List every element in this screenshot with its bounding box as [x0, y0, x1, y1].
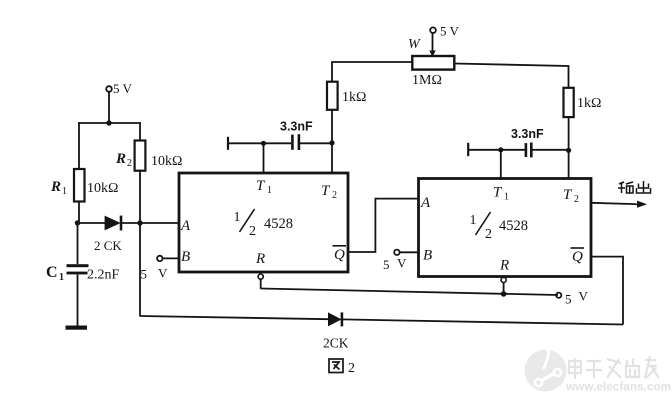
- svg-text:2: 2: [249, 224, 256, 239]
- node T2 cap junction: [329, 140, 334, 145]
- svg-text:5: 5: [141, 267, 148, 282]
- svg-text:1kΩ: 1kΩ: [342, 90, 366, 105]
- wire to diode anode: [78, 222, 106, 224]
- svg-text:B: B: [181, 249, 190, 265]
- svg-text:Q: Q: [572, 249, 583, 265]
- wire right 1k down to T2 of U2: [568, 117, 570, 179]
- svg-text:2.2nF: 2.2nF: [87, 268, 120, 283]
- node diode/R2/feedback junction: [137, 220, 142, 225]
- wire T2/1k drop of U1: [331, 110, 333, 174]
- wire 1k left top to pot: [332, 62, 412, 82]
- svg-text:www.elecfans.com: www.elecfans.com: [565, 380, 671, 394]
- power 5V supply top: [430, 24, 459, 39]
- input B1 5V terminal: [141, 256, 181, 282]
- svg-text:5: 5: [383, 257, 390, 272]
- node T1 cap junction (U2): [498, 147, 503, 152]
- svg-text:R: R: [255, 251, 265, 267]
- svg-text:C: C: [46, 264, 58, 281]
- svg-text:1: 1: [62, 186, 67, 197]
- wire T1 of U2: [500, 150, 502, 180]
- reset bubble U1: [258, 274, 263, 279]
- svg-text:1kΩ: 1kΩ: [577, 96, 601, 111]
- svg-text:R: R: [115, 151, 126, 167]
- svg-text:2: 2: [348, 361, 355, 376]
- svg-text:2: 2: [574, 194, 579, 205]
- svg-text:5 V: 5 V: [113, 81, 133, 96]
- diode D1 2CK: [94, 216, 122, 253]
- svg-text:R: R: [499, 258, 509, 274]
- svg-text:W: W: [408, 37, 421, 52]
- node T1 cap junction: [261, 141, 266, 146]
- svg-text:Q: Q: [334, 247, 345, 263]
- resistor R1 10k: [50, 169, 118, 202]
- svg-text:B: B: [423, 248, 432, 264]
- resistor 1k (left): [327, 82, 366, 110]
- resistor R2 10k: [115, 141, 182, 171]
- svg-text:1: 1: [234, 210, 241, 225]
- wire reset U1 drop: [260, 279, 262, 289]
- svg-text:2: 2: [127, 158, 132, 169]
- svg-text:2: 2: [332, 190, 337, 201]
- label 输出 (output): [618, 181, 651, 193]
- node R1/C1 junction: [75, 220, 80, 225]
- wire feedback left drop (from diode junction): [139, 223, 141, 317]
- svg-text:2CK: 2CK: [323, 336, 349, 351]
- power 5V supply top-left: [106, 81, 132, 96]
- wire diode to A input: [121, 222, 180, 224]
- wire R2 bottom to A line: [139, 171, 141, 223]
- watermark text 电子发烧友 (approximated glyphs): [569, 356, 659, 379]
- svg-text:3.3nF: 3.3nF: [511, 127, 544, 141]
- svg-text:5: 5: [565, 292, 572, 307]
- svg-text:4528: 4528: [499, 218, 528, 234]
- caption 图 2: [329, 359, 355, 376]
- capacitor C1 2.2nF: [46, 223, 120, 326]
- wire top rail horizontal: [79, 122, 140, 124]
- wire reset U2 drop: [503, 283, 505, 295]
- IC U2 1/2 4528: [419, 179, 592, 277]
- terminal 5V reset: [556, 289, 588, 307]
- wire right drop to R2: [139, 122, 141, 141]
- wire bottom feedback rail: [140, 316, 329, 319]
- output arrow: [591, 201, 647, 208]
- ground: [66, 326, 88, 330]
- svg-text:10kΩ: 10kΩ: [87, 181, 118, 196]
- svg-text:A: A: [180, 218, 191, 234]
- IC U1 1/2 4528: [179, 173, 348, 272]
- svg-text:2 CK: 2 CK: [94, 238, 122, 253]
- svg-text:1MΩ: 1MΩ: [412, 73, 442, 88]
- diode D2 2CK: [323, 312, 349, 350]
- wire Q1 to A2: [348, 199, 419, 252]
- wire T1 of U1: [263, 143, 265, 174]
- node junction on top rail: [106, 120, 111, 125]
- wire left drop to R1: [78, 122, 80, 169]
- svg-text:3.3nF: 3.3nF: [280, 120, 313, 134]
- capacitor 3.3nF (right): [468, 127, 568, 157]
- node T2 cap junction (U2): [566, 148, 571, 153]
- input B2 5V terminal: [383, 250, 420, 272]
- wire Q2 feedback right: [591, 257, 623, 325]
- svg-text:4528: 4528: [264, 216, 293, 232]
- svg-text:1: 1: [470, 213, 477, 228]
- svg-text:1: 1: [504, 192, 509, 203]
- wire reset rail: [261, 289, 558, 296]
- watermark logo disc: [525, 349, 567, 392]
- potentiometer W 1M: [408, 34, 454, 89]
- reset bubble U2: [501, 277, 506, 282]
- wire 5V down to rail: [108, 92, 110, 123]
- svg-text:10kΩ: 10kΩ: [151, 154, 182, 169]
- capacitor 3.3nF (left): [228, 120, 332, 151]
- node reset rail junction: [501, 291, 507, 297]
- svg-text:V: V: [579, 289, 589, 304]
- svg-text:1: 1: [59, 272, 64, 283]
- wire pot right to right 1k: [454, 64, 568, 88]
- svg-text:5 V: 5 V: [440, 24, 460, 39]
- svg-text:A: A: [420, 195, 431, 211]
- wire R1 bottom: [78, 202, 80, 224]
- svg-text:R: R: [50, 179, 61, 195]
- svg-text:V: V: [397, 256, 407, 271]
- svg-text:1: 1: [267, 185, 272, 196]
- svg-text:2: 2: [485, 227, 492, 242]
- svg-text:V: V: [158, 266, 168, 281]
- resistor 1k (right): [564, 88, 602, 117]
